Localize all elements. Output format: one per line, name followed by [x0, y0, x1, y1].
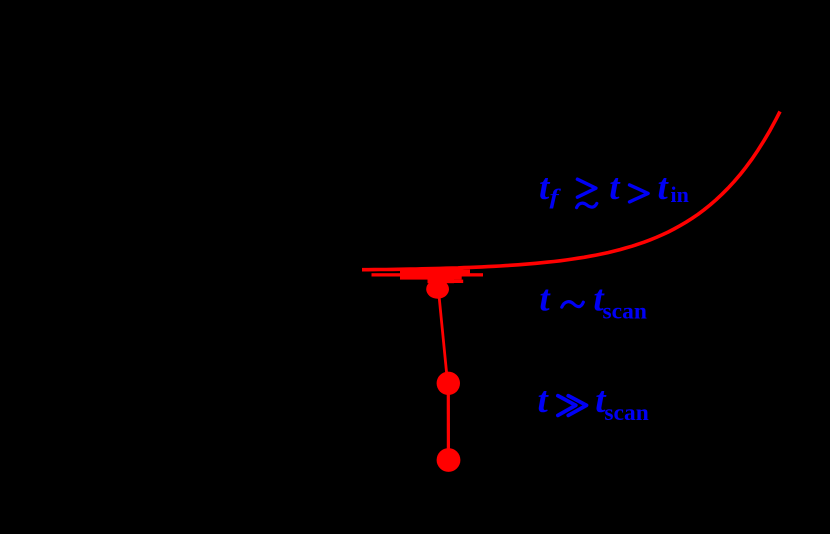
svg-text:t: t: [658, 167, 670, 208]
svg-text:t: t: [538, 380, 550, 421]
svg-text:scan: scan: [603, 299, 647, 325]
svg-text:t: t: [539, 279, 551, 320]
svg-text:scan: scan: [604, 400, 648, 426]
svg-text:in: in: [671, 182, 689, 207]
svg-text:t: t: [609, 167, 621, 208]
